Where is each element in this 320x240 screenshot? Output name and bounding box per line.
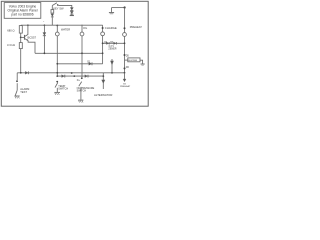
fuse box bbox=[51, 10, 54, 14]
zener branch wire bbox=[103, 42, 125, 44]
svg-text:KEY SW: KEY SW bbox=[53, 7, 64, 11]
ground G1 bbox=[15, 95, 20, 97]
wire: line D1 bbox=[57, 63, 102, 65]
node: lineA preheat junction bbox=[124, 72, 126, 74]
diode D11 bbox=[25, 71, 28, 74]
switch SW2 alarm test bbox=[16, 73, 18, 80]
wire: emitter to rail bbox=[28, 41, 35, 54]
switch SW4 oil pressure bbox=[81, 77, 83, 79]
node: charge terminal bbox=[102, 27, 104, 29]
diode D10 bbox=[71, 9, 73, 12]
wire: line A bbox=[17, 72, 124, 74]
node: rail oil junction bbox=[81, 52, 83, 54]
border frame bbox=[1, 1, 148, 106]
wire: oil drop bbox=[81, 25, 83, 32]
transistor Q1 collector bbox=[25, 25, 28, 36]
node: lineB mid junction bbox=[73, 75, 75, 77]
transistor Q1 base bar bbox=[24, 35, 26, 40]
node: collector bus tick bbox=[27, 24, 29, 26]
terminal bar bbox=[71, 14, 73, 15]
svg-text:BC557: BC557 bbox=[28, 36, 37, 40]
wire: R2 down to test line bbox=[20, 49, 22, 73]
lamp CHARGE bbox=[101, 32, 105, 36]
svg-text:ZENER: ZENER bbox=[108, 47, 116, 50]
lamp OIL bbox=[80, 32, 84, 36]
node: zener branch right bbox=[124, 42, 126, 44]
svg-text:SWITCH: SWITCH bbox=[58, 88, 68, 91]
switch SW3 temp bbox=[56, 81, 58, 83]
svg-text:ALTERNATOR: ALTERNATOR bbox=[94, 93, 112, 97]
node: base junction bbox=[20, 37, 22, 39]
node: lineA divider junction bbox=[20, 72, 22, 74]
node: D5 bbox=[124, 54, 126, 56]
svg-text:part no 828806: part no 828806 bbox=[11, 12, 33, 16]
diode D8 bbox=[51, 16, 54, 18]
preheat down arrow bbox=[124, 73, 126, 79]
lamp PREHEAT bbox=[123, 33, 127, 37]
svg-text:TEST: TEST bbox=[20, 90, 27, 94]
wire: top bus bbox=[21, 24, 103, 26]
diode D4 bbox=[106, 42, 109, 44]
key switch branch: wire from bus up bbox=[51, 17, 53, 25]
diode D2 bbox=[85, 75, 88, 78]
wire: divider node bbox=[20, 33, 22, 43]
svg-text:PREHEAT: PREHEAT bbox=[130, 25, 142, 29]
diode D3 zener bbox=[114, 42, 117, 44]
node: lineB water junction bbox=[56, 75, 58, 77]
diode D12 bbox=[62, 75, 65, 78]
node: preheat terminal bbox=[124, 27, 126, 29]
alternator sense line bbox=[111, 59, 113, 73]
node: zener branch left bbox=[102, 42, 104, 44]
diode D9 bbox=[70, 8, 73, 11]
wire: key switch top bbox=[58, 5, 71, 7]
node: lineA alt junction bbox=[111, 72, 113, 74]
title box bbox=[4, 3, 41, 19]
svg-text:PREHEAT: PREHEAT bbox=[120, 85, 131, 88]
svg-text:CHARGE: CHARGE bbox=[105, 26, 117, 30]
node: D6 bbox=[124, 67, 126, 69]
svg-text:WATER: WATER bbox=[61, 27, 70, 31]
transistor Q1 BC557 base wire bbox=[21, 36, 25, 38]
node: water D1 junction bbox=[56, 63, 58, 65]
diode D7 bus to rail bbox=[43, 25, 45, 53]
resistor R2 3.3 kohm bbox=[19, 43, 22, 49]
node: rail diode junction bbox=[44, 52, 46, 54]
svg-text:680 Ω: 680 Ω bbox=[7, 28, 14, 32]
transistor Q1 emitter bbox=[25, 39, 29, 41]
lamp WATER bbox=[55, 32, 59, 36]
diode D1 bbox=[89, 62, 92, 65]
wire: line B bbox=[57, 75, 103, 77]
resistor R1 680 ohm bbox=[19, 26, 22, 33]
wire: charge corner bbox=[102, 25, 104, 32]
wire: water drop bbox=[56, 25, 58, 32]
svg-text:SWITCH: SWITCH bbox=[77, 90, 87, 93]
wire: preheat vertical upper bbox=[124, 8, 126, 33]
node: diode bus tick bbox=[44, 24, 46, 26]
switch SW1 key lever bbox=[52, 3, 57, 6]
node: rail charge junction bbox=[102, 52, 104, 54]
node: top right corner dot bbox=[124, 6, 126, 8]
svg-text:OIL: OIL bbox=[83, 26, 88, 30]
node: key switch contact bbox=[57, 4, 59, 6]
svg-text:BUZZER: BUZZER bbox=[129, 60, 138, 62]
battery terminal symbol top right bbox=[111, 8, 113, 13]
node: lineA mid junction bbox=[71, 72, 73, 74]
wire: mid rail bbox=[35, 52, 103, 54]
wire: top right feed bbox=[112, 7, 125, 9]
ground G2 bbox=[54, 91, 60, 93]
alternator connector stem bbox=[102, 73, 104, 89]
ground G3 bbox=[78, 99, 83, 101]
node: water bus junction bbox=[56, 25, 58, 27]
svg-text:3.3 kΩ: 3.3 kΩ bbox=[7, 43, 15, 47]
node: lineA water junction bbox=[56, 72, 58, 74]
buzzer U1 bbox=[125, 59, 128, 61]
